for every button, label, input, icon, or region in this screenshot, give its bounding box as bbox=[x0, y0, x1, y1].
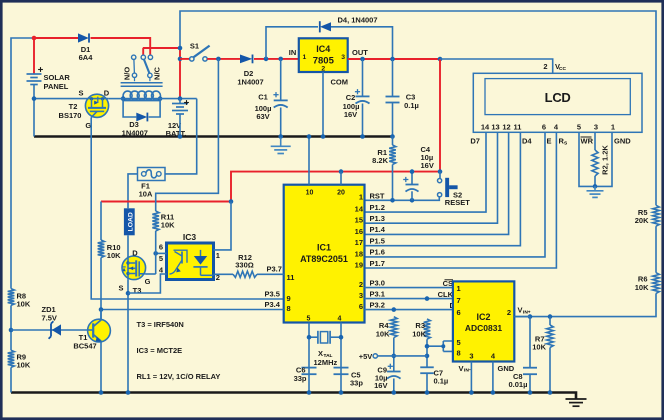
svg-text:11: 11 bbox=[514, 123, 522, 132]
svg-text:RESET: RESET bbox=[445, 198, 470, 207]
svg-text:G: G bbox=[145, 277, 151, 286]
svg-text:GND: GND bbox=[614, 137, 631, 146]
wire: zener line to T1 base bbox=[11, 329, 88, 331]
relay RL1 coil bbox=[122, 91, 160, 101]
svg-text:IC3: IC3 bbox=[183, 232, 197, 242]
svg-text:10K: 10K bbox=[17, 361, 31, 370]
svg-text:8.2K: 8.2K bbox=[372, 156, 388, 165]
capacitor C6 33p bbox=[294, 366, 317, 384]
wire: RST line bbox=[365, 197, 440, 201]
svg-text:P1.4: P1.4 bbox=[370, 225, 386, 234]
svg-text:1: 1 bbox=[457, 284, 461, 293]
svg-text:6: 6 bbox=[542, 123, 546, 132]
node: C4 on +5V rail bbox=[410, 169, 415, 174]
wire: T3 source to ground bus bbox=[127, 279, 129, 392]
svg-text:14: 14 bbox=[355, 205, 364, 214]
resistor R2, 1.2K bbox=[592, 132, 610, 186]
crystal XTAL 12MHz bbox=[309, 331, 341, 367]
wire: LCD pin14 to P1.2 bbox=[365, 132, 487, 212]
svg-text:3: 3 bbox=[341, 54, 345, 61]
wire: D2 cathode to IC4 IN bbox=[254, 58, 299, 60]
svg-text:1: 1 bbox=[359, 193, 363, 202]
svg-text:ADC0831: ADC0831 bbox=[465, 323, 503, 333]
svg-text:P1.2: P1.2 bbox=[370, 203, 385, 212]
wire: R11 feed from S1/D2 node bbox=[156, 59, 219, 211]
fuse F1 10A bbox=[138, 168, 166, 199]
svg-text:P3.5: P3.5 bbox=[265, 289, 280, 298]
node: C2 on ground bus bbox=[360, 134, 365, 139]
wire: S1 to D2 bbox=[207, 58, 240, 60]
battery 12V BATT. bbox=[166, 99, 189, 139]
svg-text:20: 20 bbox=[337, 190, 345, 197]
resistor R6 10K bbox=[635, 273, 660, 294]
node: XTAL left junction bbox=[307, 335, 312, 340]
resistor R8 10K bbox=[8, 289, 31, 309]
node: S2 on +5V rail bbox=[438, 169, 443, 174]
svg-text:N/C: N/C bbox=[153, 66, 162, 80]
wire: fuse to LOAD bbox=[128, 174, 138, 208]
node: D4 anode junction bbox=[264, 57, 269, 62]
svg-text:D4: D4 bbox=[522, 137, 532, 146]
svg-text:10K: 10K bbox=[376, 329, 390, 338]
svg-text:P1.5: P1.5 bbox=[370, 237, 385, 246]
node: coil left terminal bbox=[121, 96, 126, 101]
wire: LCD pin11 to P1.5 bbox=[365, 132, 521, 245]
wire: +5V rail to R10/R11 row bbox=[101, 201, 231, 203]
notes text block bbox=[137, 320, 221, 381]
svg-text:P1.7: P1.7 bbox=[370, 259, 385, 268]
capacitor C3 0.1u bbox=[386, 59, 419, 137]
svg-text:6: 6 bbox=[359, 302, 363, 311]
svg-text:T3 = IRF540N: T3 = IRF540N bbox=[137, 320, 184, 329]
node: T1 emitter on bus bbox=[99, 390, 104, 395]
wire: R5-R6 link bbox=[655, 226, 657, 273]
node: C1 on ground bus bbox=[278, 134, 283, 139]
resistor R11 10K bbox=[152, 211, 175, 253]
svg-text:33p: 33p bbox=[294, 374, 307, 383]
node: pin4 line on bus bbox=[339, 390, 344, 395]
wire: D4 bypass loop bbox=[266, 27, 393, 59]
svg-text:V: V bbox=[459, 364, 464, 373]
wire: R3 to pins 5/8 and +5V bbox=[427, 339, 453, 367]
svg-text:15: 15 bbox=[355, 216, 363, 225]
wire: solar panel negative to ground bus bbox=[33, 85, 35, 137]
svg-text:1N4007: 1N4007 bbox=[122, 129, 148, 138]
node: pin5 line on bus bbox=[307, 390, 312, 395]
svg-text:3: 3 bbox=[469, 351, 473, 360]
svg-text:IC1: IC1 bbox=[317, 243, 331, 253]
diode D4, 1N4007 bbox=[320, 16, 378, 33]
svg-text:V: V bbox=[518, 306, 523, 315]
svg-text:0.01µ: 0.01µ bbox=[509, 380, 528, 389]
svg-text:T2: T2 bbox=[69, 102, 78, 111]
svg-text:LCD: LCD bbox=[545, 90, 571, 105]
svg-text:S: S bbox=[78, 89, 83, 98]
node: R1/RST junction bbox=[390, 198, 395, 203]
svg-text:0.1µ: 0.1µ bbox=[404, 101, 419, 110]
node: IC1 pin20 tap bbox=[339, 169, 344, 174]
node: relay rail / riser junction bbox=[178, 46, 183, 51]
+5V terminal bbox=[359, 352, 378, 361]
svg-text:10K: 10K bbox=[161, 221, 175, 230]
node: coil right terminal bbox=[158, 96, 163, 101]
svg-text:P1.3: P1.3 bbox=[370, 214, 385, 223]
svg-text:2: 2 bbox=[359, 280, 363, 289]
svg-text:3: 3 bbox=[594, 123, 598, 132]
load block LOAD bbox=[124, 208, 135, 235]
wire: IC3 pin2 to R12 bbox=[214, 273, 234, 275]
svg-text:63V: 63V bbox=[256, 112, 269, 121]
svg-text:P1.6: P1.6 bbox=[370, 248, 385, 257]
svg-text:S: S bbox=[118, 284, 123, 293]
svg-text:CLK: CLK bbox=[438, 290, 454, 299]
wire: LCD pin6 to P1.6 bbox=[365, 132, 546, 257]
wire: IC2 pin3 to ground bus bbox=[470, 362, 472, 393]
wire: +5V riser to reset rail bbox=[439, 59, 441, 172]
wire: ground bus (lower) bbox=[11, 393, 576, 400]
node: solar negative junction bbox=[32, 96, 37, 101]
svg-text:WR: WR bbox=[581, 137, 594, 146]
wire: battery node rail bbox=[123, 98, 197, 100]
svg-text:AT89C2051: AT89C2051 bbox=[300, 254, 348, 264]
node: R8/R9 junction bbox=[9, 328, 14, 333]
wire: R4 to C9 bbox=[393, 338, 395, 372]
node: C4/RST junction bbox=[410, 198, 415, 203]
svg-text:10K: 10K bbox=[412, 329, 426, 338]
wire: LCD pin4 to P1.7 bbox=[365, 132, 557, 268]
svg-text:6: 6 bbox=[457, 308, 461, 317]
svg-text:7.5V: 7.5V bbox=[42, 313, 57, 322]
svg-text:5: 5 bbox=[457, 338, 461, 347]
wire: IC1 pin10 to ground bus bbox=[308, 137, 310, 185]
svg-text:RST: RST bbox=[370, 192, 385, 201]
wire: LCD pin5/pin1 ground loop bbox=[579, 132, 612, 186]
node: COM on ground bus bbox=[321, 134, 326, 139]
wire: battery negative to ground bus bbox=[179, 114, 181, 136]
ground (LCD R2) bbox=[587, 186, 604, 197]
svg-text:10K: 10K bbox=[107, 251, 121, 260]
node: C3 on ground bus bbox=[390, 134, 395, 139]
svg-text:2: 2 bbox=[507, 308, 511, 317]
microcontroller IC1 AT89C2051 bbox=[284, 185, 365, 323]
wire: R8-R9 junction segment bbox=[10, 305, 12, 350]
wire: solar sense rail (left) bbox=[11, 38, 34, 289]
node: R3/+5V junction bbox=[425, 354, 430, 359]
svg-text:2: 2 bbox=[543, 62, 547, 71]
wire: battery to fuse bbox=[165, 99, 197, 174]
svg-text:+5V: +5V bbox=[359, 352, 373, 361]
solar panel battery symbol bbox=[27, 67, 71, 91]
svg-text:RL1 = 12V, 1C/O RELAY: RL1 = 12V, 1C/O RELAY bbox=[137, 372, 221, 381]
svg-text:1: 1 bbox=[303, 54, 307, 61]
resistor R1 8.2K bbox=[372, 137, 396, 201]
svg-text:IN: IN bbox=[289, 48, 297, 57]
svg-text:10K: 10K bbox=[635, 283, 649, 292]
wire: solar negative to T2 source bbox=[34, 98, 87, 100]
wire: IC2 pin4 to ground bus bbox=[492, 362, 494, 393]
node Vcc label bbox=[543, 62, 566, 72]
resistor R10 10K bbox=[98, 202, 121, 320]
svg-text:6: 6 bbox=[159, 243, 163, 252]
svg-text:IC3 = MCT2E: IC3 = MCT2E bbox=[137, 346, 183, 355]
svg-text:COM: COM bbox=[331, 78, 349, 87]
node: R3 tap on CLK bbox=[425, 296, 430, 301]
node: pin4 on bus bbox=[491, 390, 496, 395]
svg-text:2: 2 bbox=[321, 66, 325, 73]
svg-text:D: D bbox=[104, 89, 110, 98]
svg-text:E: E bbox=[547, 137, 552, 146]
svg-text:17: 17 bbox=[355, 238, 363, 247]
wire: R9 to ground bus bbox=[10, 367, 12, 392]
switch S1 bbox=[180, 42, 210, 62]
node: R4 tap on Do bbox=[392, 307, 397, 312]
wire: R12 to IC1 pin11 (P3.7) bbox=[257, 273, 284, 275]
svg-text:N/O: N/O bbox=[123, 67, 132, 81]
wire: stub to relay pole contact bbox=[142, 48, 144, 55]
wire: solar panel positive lead bbox=[33, 38, 35, 74]
node: C1 junction bbox=[278, 57, 283, 62]
resistor R5 20K bbox=[635, 205, 660, 226]
net label Do bbox=[450, 301, 460, 311]
svg-text:8: 8 bbox=[457, 348, 461, 357]
net label CS bbox=[443, 279, 453, 288]
wire: T1 collector riser bbox=[100, 310, 102, 320]
diode D1 6A4 bbox=[78, 33, 93, 62]
node: C9 on bus bbox=[392, 390, 397, 395]
resistor R9 10K bbox=[8, 350, 31, 369]
node: T3 source on ground bus bbox=[126, 390, 131, 395]
svg-text:CS: CS bbox=[443, 279, 453, 288]
resistor R4 10K bbox=[376, 317, 397, 339]
wire: P3.2 to Do bbox=[365, 309, 453, 311]
svg-text:14: 14 bbox=[481, 123, 490, 132]
node: S1/D2 junction (R11 feed) bbox=[216, 57, 221, 62]
wire: T2 gate to P3.5 bbox=[91, 117, 284, 299]
ground (C1) bbox=[271, 138, 291, 154]
capacitor C5 33p bbox=[334, 368, 364, 388]
relay RL1 core bbox=[121, 83, 163, 87]
capacitor C9 10u 16V bbox=[374, 364, 400, 393]
node: R3/pin5-8 junction bbox=[425, 344, 430, 349]
diode D3 1N4007 bbox=[122, 113, 148, 138]
wire: IC3 pin5 stub bbox=[156, 252, 167, 254]
svg-text:P3.4: P3.4 bbox=[265, 300, 281, 309]
svg-text:S1: S1 bbox=[190, 42, 199, 51]
svg-text:1: 1 bbox=[611, 123, 615, 132]
svg-text:33p: 33p bbox=[350, 379, 363, 388]
capacitor C8 0.01u bbox=[509, 317, 538, 393]
svg-text:5: 5 bbox=[307, 315, 311, 322]
svg-text:D4, 1N4007: D4, 1N4007 bbox=[338, 16, 378, 25]
node: R4/+5V junction bbox=[392, 354, 397, 359]
svg-text:IC4: IC4 bbox=[316, 44, 330, 54]
node: C7 on bus bbox=[425, 390, 430, 395]
node: solar panel / D1 junction bbox=[32, 36, 37, 41]
svg-text:5: 5 bbox=[159, 254, 163, 263]
svg-text:16V: 16V bbox=[421, 161, 434, 170]
transistor T1 BC547 bbox=[73, 319, 110, 350]
svg-text:D7: D7 bbox=[470, 137, 480, 146]
wire: IC3 pin1 riser bbox=[214, 202, 232, 250]
svg-text:10: 10 bbox=[306, 190, 314, 197]
svg-text:D: D bbox=[132, 248, 138, 257]
svg-text:P3.7: P3.7 bbox=[267, 265, 282, 274]
svg-text:10K: 10K bbox=[532, 342, 546, 351]
wire: battery riser (red) bbox=[179, 48, 181, 99]
svg-text:4: 4 bbox=[338, 315, 342, 322]
svg-text:10A: 10A bbox=[139, 190, 153, 199]
wire: P3.1 to CLK bbox=[365, 298, 453, 300]
svg-text:1: 1 bbox=[216, 251, 220, 260]
transistor T2 BS170 (MOSFET) bbox=[59, 89, 110, 130]
wire: +5V reset rail bbox=[231, 172, 440, 202]
wire: T3 gate link bbox=[145, 273, 155, 275]
wire: IC1 pin20 to +5V bbox=[340, 172, 342, 185]
wire: +5V line bbox=[378, 355, 428, 357]
node: battery positive bbox=[178, 96, 183, 101]
resistor R7 10K bbox=[532, 317, 553, 393]
svg-text:X: X bbox=[318, 349, 323, 358]
node: C8 on bus bbox=[528, 390, 533, 395]
regulator IC4 7805 bbox=[289, 38, 368, 86]
node: T3 source / IC3 pin4 junction bbox=[126, 291, 131, 296]
svg-text:16V: 16V bbox=[344, 110, 357, 119]
wire: Vcc line to LCD pin 2 bbox=[440, 59, 553, 73]
zener diode ZD1 7.5V bbox=[42, 305, 62, 339]
svg-text:IN+: IN+ bbox=[523, 309, 531, 315]
IC1 pin labels RST P1.x P3.x bbox=[370, 192, 386, 310]
svg-text:BS170: BS170 bbox=[59, 111, 82, 120]
svg-text:BC547: BC547 bbox=[73, 342, 96, 351]
svg-text:R2, 1.2K: R2, 1.2K bbox=[601, 145, 610, 175]
svg-text:PANEL: PANEL bbox=[44, 82, 69, 91]
wire: IC3 pin4 to T3 source bbox=[128, 274, 167, 293]
node: R7 tap bbox=[548, 314, 553, 319]
node: XTAL right junction bbox=[339, 335, 344, 340]
svg-text:LOAD: LOAD bbox=[128, 212, 135, 231]
wire: IC2 pin2 VIN+ line bbox=[514, 316, 530, 318]
resistor R3 10K bbox=[412, 319, 430, 339]
wire: IC1 pin4 to ground bus bbox=[340, 323, 342, 393]
node: pin3 on bus bbox=[469, 390, 474, 395]
transistor T3 IRF540N (MOSFET) bbox=[118, 248, 150, 294]
node: T1 collector / P3.4 junction bbox=[99, 307, 104, 312]
svg-text:6A4: 6A4 bbox=[79, 53, 94, 62]
svg-text:C2: C2 bbox=[346, 93, 356, 102]
svg-text:12MHz: 12MHz bbox=[314, 358, 338, 367]
wire: LCD pin13 to P1.3 bbox=[365, 132, 498, 223]
svg-text:IC2: IC2 bbox=[476, 312, 490, 322]
svg-text:1N4007: 1N4007 bbox=[237, 78, 263, 87]
svg-text:C1: C1 bbox=[258, 93, 268, 102]
capacitor C4 10u 16V bbox=[403, 145, 434, 201]
svg-text:11: 11 bbox=[287, 273, 295, 282]
node: IC3 pin1 junction bbox=[229, 199, 234, 204]
svg-text:P3.1: P3.1 bbox=[370, 289, 385, 298]
svg-text:8: 8 bbox=[287, 304, 291, 313]
node: C8 tap bbox=[528, 314, 533, 319]
IC2 pin labels bbox=[459, 306, 531, 374]
relay RL1 contacts N/O N/C bbox=[123, 55, 162, 81]
node: S1 tap junction bbox=[178, 57, 183, 62]
wire: IC4 OUT +5V rail bbox=[348, 58, 440, 60]
svg-text:330Ω: 330Ω bbox=[235, 260, 254, 269]
svg-text:20K: 20K bbox=[635, 216, 649, 225]
wire: relay contact feed rail bbox=[143, 47, 180, 49]
svg-text:10K: 10K bbox=[17, 300, 31, 309]
svg-text:9: 9 bbox=[287, 294, 291, 303]
svg-text:13: 13 bbox=[491, 123, 499, 132]
wire: R6 to VIN+ line bbox=[514, 293, 656, 316]
optocoupler IC3 MCT2E bbox=[159, 232, 220, 282]
node: R2 ground junction bbox=[593, 184, 598, 189]
node: +5V rail corner bbox=[438, 57, 443, 62]
svg-text:16: 16 bbox=[355, 227, 363, 236]
node: battery negative on bus bbox=[178, 134, 183, 139]
ground (system, bottom right) bbox=[566, 399, 587, 406]
wire: IC4 COM to ground bus bbox=[322, 72, 324, 137]
wire: P3.0 to CS bbox=[365, 287, 453, 289]
svg-text:BATT.: BATT. bbox=[166, 129, 187, 138]
svg-text:P3.0: P3.0 bbox=[370, 278, 385, 287]
wire: R11 junction to T3 gate row bbox=[155, 253, 157, 274]
svg-text:3: 3 bbox=[359, 291, 363, 300]
svg-text:7: 7 bbox=[457, 296, 461, 305]
node: pin10 on bus bbox=[307, 134, 312, 139]
capacitor C2 100u 16V bbox=[343, 59, 370, 137]
wire: P3.4 line to IC1 pin8 bbox=[101, 309, 284, 311]
svg-text:18: 18 bbox=[355, 249, 363, 258]
svg-text:P3.2: P3.2 bbox=[370, 300, 385, 309]
wire: LCD pin12 to P1.4 bbox=[365, 132, 509, 234]
wire: battery positive rail to R5/R6 divider (top) bbox=[180, 11, 656, 205]
wire: D1 anode wire bbox=[34, 37, 78, 39]
svg-text:12: 12 bbox=[502, 123, 510, 132]
resistor R12 330ohm bbox=[233, 253, 257, 277]
capacitor C7 0.1u bbox=[420, 367, 448, 392]
node: C3/D4 junction bbox=[390, 57, 395, 62]
svg-text:SOLAR: SOLAR bbox=[44, 73, 71, 82]
LCD pin labels bbox=[470, 137, 631, 147]
diode D2 1N4007 bbox=[237, 55, 263, 87]
adc IC2 ADC0831 bbox=[453, 281, 514, 361]
wire: D3 loop bbox=[123, 99, 160, 117]
svg-text:0.1µ: 0.1µ bbox=[434, 377, 449, 386]
wire: T2 drain to relay coil bbox=[108, 98, 123, 100]
node: R11/pin5 junction bbox=[153, 251, 158, 256]
wire: ground bus (upper, battery negative) bbox=[34, 135, 393, 138]
wire: LOAD to T3 drain bbox=[127, 235, 129, 256]
svg-text:19: 19 bbox=[355, 260, 363, 269]
node: R7 on bus bbox=[548, 390, 553, 395]
svg-text:OUT: OUT bbox=[352, 48, 368, 57]
wire: IC1 pin5 to ground bus bbox=[308, 323, 310, 393]
wire: D1 cathode to relay feed bbox=[91, 38, 151, 55]
capacitor C1 100u 63V bbox=[255, 59, 288, 137]
svg-text:CC: CC bbox=[559, 66, 566, 72]
node: C2 junction bbox=[360, 57, 365, 62]
display LCD module bbox=[473, 73, 642, 132]
switch S2 RESET bbox=[438, 172, 471, 207]
svg-text:16V: 16V bbox=[374, 381, 387, 390]
wire: T1 emitter to ground bus bbox=[100, 341, 102, 392]
svg-text:5: 5 bbox=[577, 123, 581, 132]
